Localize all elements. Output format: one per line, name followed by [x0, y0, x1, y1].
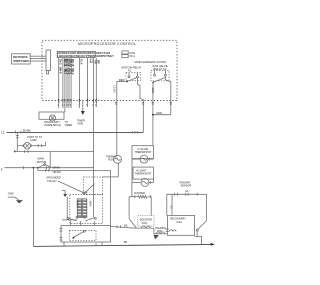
svg-text:BN-5: BN-5: [71, 69, 74, 75]
svg-text:TIMER: TIMER: [65, 124, 73, 127]
svg-text:5M-BK: 5M-BK: [53, 167, 61, 170]
svg-text:YL-6: YL-6: [79, 59, 82, 65]
svg-text:GND: GND: [8, 192, 14, 196]
booster coil L1 bumps: [136, 226, 154, 228]
wire K2 left pin down GRN: [151, 82, 154, 145]
drum light loop: [39, 112, 65, 119]
wire K2 right pin to x171 down: [166, 76, 171, 115]
svg-text:WH-8: WH-8: [59, 67, 62, 74]
ground timer gnd: [81, 101, 85, 115]
wire bus y114.7: [152, 111, 171, 116]
wire keypad to connector P1: [30, 56, 46, 61]
stub wires below connector: [59, 101, 97, 112]
motor ground: [62, 191, 67, 197]
hi-limit thermostat TH2: [132, 178, 154, 186]
svg-text:BR: BR: [96, 60, 99, 64]
svg-text:CON: CON: [129, 51, 135, 55]
gas valve relay K2: [151, 71, 169, 84]
wire K1 right pin down to L1: [138, 78, 144, 133]
booster coil label box: [138, 216, 154, 226]
svg-text:COIL: COIL: [142, 222, 148, 225]
svg-text:SENSOR: SENSOR: [181, 184, 192, 187]
secondary coil box T1: [166, 215, 195, 235]
svg-text:COIL: COIL: [176, 221, 182, 224]
keypad switches box S1: [12, 54, 31, 64]
igniter element R1: [132, 195, 151, 198]
wire lamp to hook: [31, 142, 46, 147]
wire row y152: [14, 150, 94, 168]
label grounded pulley: [46, 177, 61, 183]
microprocessor control board dashed enclosure U1: [42, 40, 177, 100]
holding coil label: [155, 227, 166, 233]
label RED: [119, 78, 125, 82]
svg-text:C8-1: C8-1: [129, 54, 135, 58]
hi-limit thermostat label box: [133, 167, 154, 179]
wire K1 left pin to node: [117, 81, 128, 83]
node F label: [1, 168, 3, 172]
igniter right drop: [150, 197, 152, 216]
label push to start: [27, 136, 42, 142]
start winding: [75, 199, 81, 218]
ground chassis note: [8, 192, 23, 204]
svg-text:THERMOSTAT: THERMOSTAT: [135, 173, 152, 176]
wires into switch box: [70, 101, 94, 226]
label L1 BU rotated: [112, 86, 115, 93]
svg-text:BU-BK: BU-BK: [23, 129, 31, 132]
wire F line y167.7: [5, 166, 94, 169]
label to timer: [65, 121, 73, 127]
cycling thermostat label box: [132, 146, 154, 159]
svg-text:MOTOR RELAY: MOTOR RELAY: [122, 65, 142, 69]
svg-text:START: START: [75, 201, 78, 209]
igniter loop left: [129, 182, 136, 228]
svg-text:IGNITER: IGNITER: [134, 191, 145, 195]
gas valve relay K2 label: [152, 64, 167, 71]
connector ticks at board edge y101: [58, 99, 173, 107]
label timer gnd: [77, 120, 85, 126]
label drum light: [44, 121, 61, 127]
radiant sensor label: [180, 181, 192, 187]
neutral bus N: [33, 241, 214, 246]
svg-text:OR: OR: [94, 60, 97, 64]
wires box bottom to bus: [64, 242, 102, 246]
svg-text:THERMOSTAT: THERMOSTAT: [134, 151, 151, 154]
svg-text:MOTOR: MOTOR: [37, 160, 47, 164]
igniter label: [134, 191, 145, 195]
motor switch blade at F: [37, 164, 46, 171]
wire cycling to hi-limit: [131, 159, 133, 182]
wire drop to door lamp: [16, 132, 19, 152]
wire thermal fuse to motor box: [103, 163, 119, 177]
belt switch diagonal: [58, 181, 85, 194]
holding coil L2 bumps: [154, 228, 168, 239]
svg-text:BK: BK: [124, 225, 128, 228]
motor feed wire: [62, 197, 77, 220]
svg-text:GND: GND: [78, 123, 84, 126]
lamp DS1: [17, 142, 31, 149]
svg-text:BK: BK: [124, 241, 128, 244]
wire secondary to bus: [195, 236, 202, 244]
cycling thermostat TH1: [132, 155, 154, 163]
wire x110.5 drop: [110, 170, 112, 225]
drum lamp DS2: [49, 115, 55, 121]
svg-text:GRN: GRN: [151, 88, 154, 94]
wire L1 line: [7, 129, 144, 133]
wire left return down: [33, 167, 35, 247]
connector strip labels row: [57, 51, 114, 64]
svg-text:GRN: GRN: [156, 111, 162, 115]
svg-text:RD-18: RD-18: [71, 59, 74, 67]
wire node down to thermal fuse: [116, 82, 118, 156]
svg-text:F: F: [1, 168, 3, 172]
label MAIN HARNESS (CONT): [135, 60, 167, 64]
svg-text:LAMP: LAMP: [30, 139, 37, 142]
connector CN8 stacked boxes: [122, 51, 136, 58]
radiant sensor switch blade: [196, 221, 206, 237]
motor relay K1: [126, 72, 140, 81]
node L1 label: [1, 130, 5, 134]
connector P1: [46, 50, 51, 74]
wire bundle verticals from connector strip: [59, 58, 97, 101]
svg-text:L1: L1: [1, 130, 5, 134]
thermal fuse label: [106, 156, 118, 162]
motor internal contacts: [67, 216, 96, 221]
label main motor: [37, 157, 50, 167]
title MICROPROCESSOR CONTROL: [78, 42, 136, 46]
motor relay K1 label: [122, 65, 142, 72]
wire color labels rotated on bundle: [59, 59, 100, 75]
motor switch box: [60, 226, 111, 243]
motor dashed enclosure M1: [70, 195, 103, 224]
svg-text:GA: GA: [185, 190, 189, 193]
svg-text:(SOME MDLS): (SOME MDLS): [44, 124, 61, 127]
svg-text:6M-WH: 6M-WH: [53, 171, 61, 174]
svg-text:MAIN: MAIN: [89, 201, 92, 207]
radiant sensor loop: [167, 190, 207, 220]
svg-text:SWITCHES: SWITCHES: [13, 59, 29, 63]
thermal fuse TF1: [114, 155, 122, 163]
main winding: [83, 199, 92, 218]
svg-text:L1-BU: L1-BU: [112, 86, 115, 93]
centrifugal switch dashed box: [83, 177, 102, 195]
wire box right to igniter circuit: [111, 225, 137, 229]
svg-text:PULLEY: PULLEY: [47, 180, 57, 183]
svg-text:TN-2: TN-2: [59, 59, 62, 65]
wire y170.4: [38, 169, 111, 174]
svg-text:MICROPROCESSOR CONTROL: MICROPROCESSOR CONTROL: [78, 42, 136, 46]
svg-text:K1: K1: [128, 68, 132, 72]
